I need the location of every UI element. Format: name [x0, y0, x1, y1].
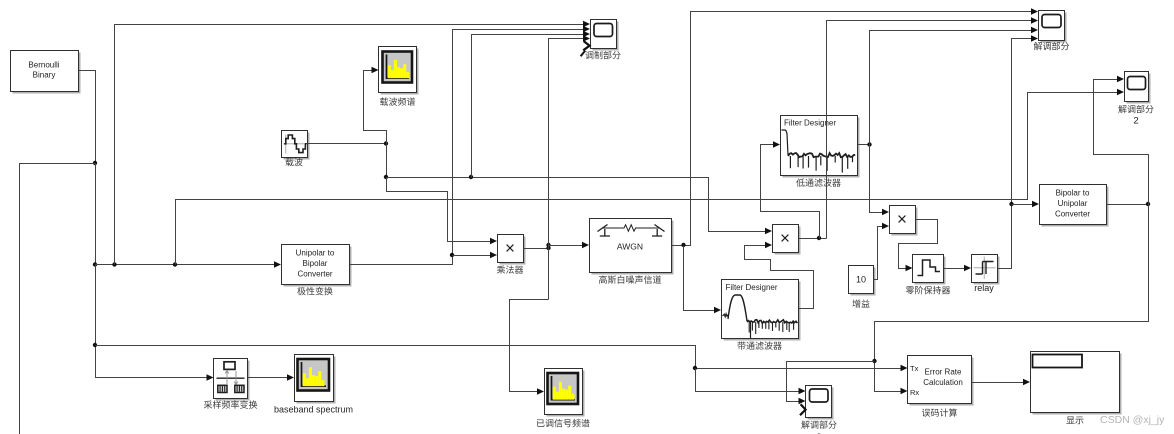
- block demodulation scope 2: [1127, 74, 1151, 104]
- wire: AWGN output to received bus: [672, 12, 1033, 246]
- svg-text:Unipolar to: Unipolar to: [296, 249, 335, 258]
- wire: demod product up to demod scope input 2: [827, 21, 1033, 239]
- wire: sine carrier output to junction G: [307, 143, 387, 145]
- wire: recovered signal down-left to Rx: [875, 205, 1149, 392]
- svg-text:Bipolar: Bipolar: [303, 259, 328, 268]
- block baseband spectrum scope: [297, 357, 336, 404]
- block relay: [974, 257, 1000, 285]
- wire: modulated vertical bus up to scope1 input 4: [549, 39, 584, 300]
- wire: low-pass branch down to gain multiplier input 1: [870, 145, 884, 213]
- block demodulation scope 3: [808, 388, 834, 420]
- wire: carrier branch to modulator multiplier input 1: [387, 178, 492, 242]
- wire: scope3 extra diagonal input mark: [800, 404, 806, 415]
- wire: recovered branch to demod scope3 input 2: [787, 362, 875, 402]
- wire: branch down to demod scope3 input 1: [696, 369, 800, 392]
- wire: source column down to bottom branch: [96, 265, 209, 378]
- block sine wave carrier (zaibo): [284, 133, 310, 160]
- label jixing bianhuan (polarity conversion): [297, 287, 332, 295]
- wire: demod product up-left into low-pass filter input: [761, 145, 820, 239]
- junction F (695,368): [693, 366, 697, 370]
- wire: carrier to carrier-spectrum scope (staircase): [364, 71, 387, 144]
- svg-text:relay: relay: [974, 283, 994, 293]
- block zero-order hold: [915, 257, 946, 285]
- junction G (386,143.5): [384, 141, 388, 145]
- junction A (95,163): [93, 161, 97, 165]
- wire: rate transition output into baseband spectrum scope: [248, 377, 289, 379]
- wire: relay output up to Bipolar-Unipolar converter input: [998, 39, 1033, 269]
- block display (xianshi): [1033, 354, 1122, 415]
- label daitong lvboqi (band-pass filter): [737, 341, 781, 349]
- junction D (175,264.5): [173, 262, 177, 266]
- junction K (548.5,248): [546, 246, 550, 250]
- wire: bipolar branch into multiplier input 2: [453, 255, 492, 257]
- junction O (869.5,144.5): [867, 142, 871, 146]
- svg-text:CSDN @xj_jy: CSDN @xj_jy: [1100, 414, 1165, 426]
- label zaibo (carrier): [285, 158, 302, 166]
- svg-text:Converter: Converter: [297, 270, 332, 279]
- block demodulator multiplier: [775, 227, 801, 255]
- block demodulation scope (jietiao bufen): [1041, 13, 1067, 43]
- wire: constant 10 up into gain multiplier input 2: [874, 227, 884, 280]
- block Bernoulli Binary generator: [13, 53, 81, 94]
- svg-text:Filter Designer: Filter Designer: [784, 119, 836, 128]
- label jietiao bufen (demodulation part): [1034, 42, 1069, 50]
- wire: long data line y=345 to Tx and demod scope 3: [96, 346, 902, 369]
- label jietiao bufen 3: [801, 420, 836, 428]
- wire: Bernoulli output right then down to junction A: [79, 71, 96, 164]
- wire: low-pass branch up to demod scope input 3: [870, 31, 1033, 145]
- label chengfaqi (multiplier): [497, 265, 523, 273]
- svg-text:Bipolar to: Bipolar to: [1056, 189, 1090, 198]
- junction H (386,177): [384, 175, 388, 179]
- label caiyang pinlv bianhuan (rate transition): [204, 400, 257, 408]
- svg-text:2: 2: [1133, 116, 1138, 127]
- label tiaozhi bufen (modulation part): [585, 51, 620, 59]
- wire: carrier branch up to scope1 input 3: [472, 35, 584, 178]
- block AWGN channel: [592, 221, 674, 275]
- wire: modulated branch into AWGN channel: [549, 245, 584, 247]
- wire: band-pass output staircase up to demod multiplier input 2: [745, 246, 814, 309]
- wire: scope1 extra diagonal input mark: [583, 41, 589, 50]
- block modulation scope (tiaozhi bufen): [593, 22, 619, 51]
- block carrier spectrum scope (zaibo pinpu): [381, 49, 419, 95]
- wire: zero-order hold output into relay: [944, 268, 966, 270]
- wire: far-left feedback loop down to bottom edge: [20, 164, 96, 434]
- junction M (683.5,245): [681, 243, 685, 247]
- wire: low-pass output to junction O: [858, 144, 870, 146]
- junction J (452,255): [450, 253, 454, 257]
- label zengyi (gain): [852, 299, 869, 307]
- svg-text:baseband spectrum: baseband spectrum: [274, 405, 353, 415]
- label jietiao bufen 2: [1118, 105, 1153, 113]
- block rate transition (caiyang pinlv bianhuan): [216, 361, 250, 401]
- wire: branch right into Bipolar-Unipolar converter: [1012, 204, 1034, 206]
- wire: long carrier line y=177 to demod multiplier input 1: [387, 178, 767, 232]
- svg-text:Tx: Tx: [910, 364, 919, 373]
- wire: data up-left leg and long top line to scope1 input 1: [115, 25, 584, 265]
- label ditong lvboqi (low-pass filter): [796, 178, 841, 186]
- wire: source column down to data bus: [95, 164, 97, 265]
- junction N (819,238): [817, 236, 821, 240]
- block Error Rate Calculation: [910, 358, 974, 406]
- junction I (471,177): [469, 175, 473, 179]
- wire: converter2 output to junction Q: [1107, 204, 1149, 206]
- wire: demod multiplier output to junction N: [799, 238, 827, 240]
- junction E (95,345): [93, 343, 97, 347]
- junction C (114.5,264.5): [112, 262, 116, 266]
- svg-text:Error Rate: Error Rate: [925, 368, 962, 377]
- svg-text:10: 10: [856, 275, 866, 285]
- svg-text:Rx: Rx: [910, 388, 919, 397]
- label lingjie baochiqi (zero-order hold): [906, 286, 950, 294]
- junction B (95,264.5): [93, 262, 97, 266]
- wire: data long line y=199 to demod scope 2 input 2: [176, 93, 1119, 265]
- junction R (874.5,361): [872, 359, 876, 363]
- svg-text:Converter: Converter: [1055, 210, 1090, 219]
- block modulator multiplier (chengfaqi): [500, 237, 526, 265]
- block Unipolar to Bipolar Converter: [284, 247, 352, 287]
- label gaosi baizaosheng xindao (AWGN channel): [599, 275, 661, 283]
- block modulated signal spectrum scope: [547, 371, 585, 417]
- block Bipolar to Unipolar Converter: [1042, 187, 1109, 227]
- svg-text:Bernoulli: Bernoulli: [28, 61, 59, 70]
- wire: modulated signal from multiplier output to vertical bus: [524, 248, 549, 250]
- label yitiao xinhao pinpu (modulated signal spectrum): [537, 419, 590, 427]
- wire: carrier down to long carrier line: [386, 144, 388, 178]
- junction L (548.5,245): [546, 243, 550, 247]
- wire: bipolar signal from converter to multiplier input 2 and scope1 input 2: [350, 30, 584, 265]
- junction Q (1148,204): [1146, 202, 1150, 206]
- block band-pass Filter Designer: [724, 282, 801, 341]
- wire: recovered signal up to demod scope 2 input 1: [1094, 80, 1149, 205]
- label wuma jisuan (error calculation): [922, 408, 957, 416]
- svg-text:AWGN: AWGN: [617, 242, 643, 252]
- wire: data bus to Unipolar-Bipolar converter input: [96, 264, 276, 266]
- svg-text:Filter Designer: Filter Designer: [726, 283, 778, 292]
- block gain multiplier: [892, 208, 918, 236]
- wire: modulated branch down to modulated-spectrum scope: [510, 300, 549, 392]
- wire: received branch down into band-pass filter: [684, 246, 716, 311]
- wire: error rate output into display: [972, 382, 1025, 384]
- junction P (1011.5,204): [1009, 202, 1013, 206]
- wire: gain multiplier output staircase into zero-order hold: [899, 220, 938, 269]
- svg-text:Unipolar: Unipolar: [1058, 199, 1088, 208]
- svg-text:Calculation: Calculation: [923, 378, 963, 387]
- label xianshi (display): [1066, 416, 1083, 424]
- block low-pass Filter Designer: [783, 118, 860, 178]
- block constant 10 (gain): [851, 268, 876, 296]
- svg-text:Binary: Binary: [33, 71, 56, 80]
- label zaibo pinpu (carrier spectrum): [380, 97, 415, 105]
